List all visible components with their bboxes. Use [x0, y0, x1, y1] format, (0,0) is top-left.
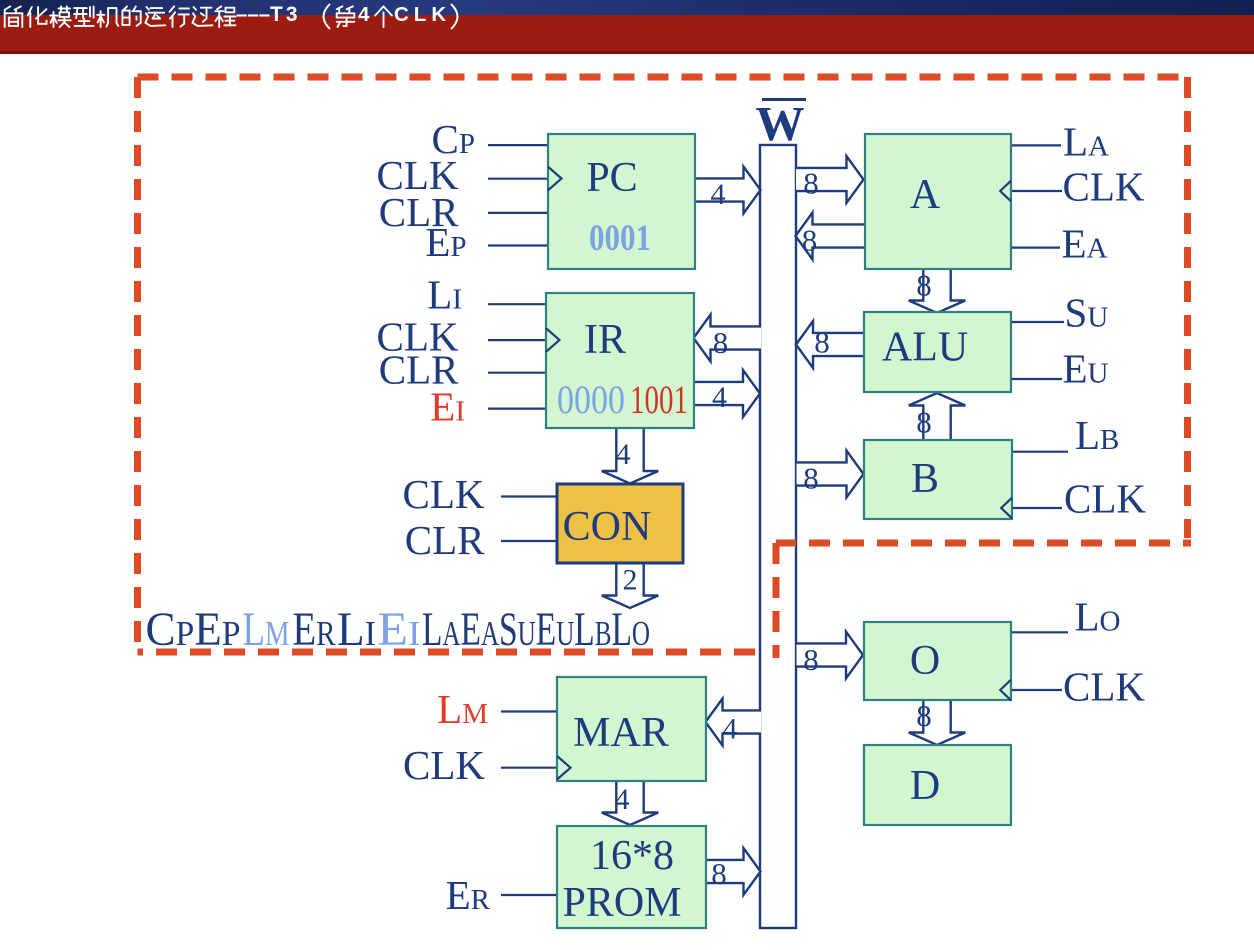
header blue bar: [0, 0, 1254, 15]
svg-text:CPEP: CPEP: [146, 604, 241, 656]
display D: [864, 745, 1011, 825]
bus arrow A to W (8 bits): [796, 213, 866, 260]
svg-text:4: 4: [358, 3, 370, 26]
bus arrow PC to W (4 bits): [695, 167, 761, 214]
control signals CpEpLmErLiEiLaEaSuEuLbLo: [146, 604, 651, 656]
ALU: [864, 312, 1011, 392]
wire A to La: [1011, 144, 1061, 146]
svg-text:LA: LA: [1063, 119, 1109, 165]
svg-text:8: 8: [711, 856, 727, 891]
arrow MAR to PROM (4 bits): [602, 781, 659, 825]
svg-text:PROM: PROM: [562, 880, 681, 926]
svg-text:CLK: CLK: [403, 742, 485, 788]
svg-text:8: 8: [803, 642, 819, 677]
dashed red border: bottom edge: [138, 649, 756, 656]
svg-text:W: W: [756, 96, 805, 151]
wire Er to PROM: [501, 894, 557, 896]
svg-text:8: 8: [802, 223, 818, 258]
svg-text:CON: CON: [563, 504, 652, 550]
svg-text:D: D: [910, 763, 940, 809]
bus arrow W to IR (8 bits): [694, 315, 762, 362]
svg-text:8: 8: [814, 325, 830, 360]
svg-text:4: 4: [712, 381, 727, 414]
bus arrow W to MAR (4 bits): [706, 699, 762, 746]
wire CLK to IR: [488, 339, 546, 341]
svg-text:O: O: [910, 638, 940, 684]
svg-text:8: 8: [803, 461, 819, 496]
bus arrow W to O (8 bits): [797, 632, 864, 679]
clock chevron MAR: [557, 756, 571, 780]
register B: [864, 440, 1012, 519]
dashed red border: step left edge: [773, 543, 780, 658]
svg-text:8: 8: [916, 268, 932, 303]
svg-text:A: A: [910, 172, 941, 218]
svg-text:CLK: CLK: [1063, 164, 1145, 210]
svg-text:MAR: MAR: [573, 710, 669, 756]
svg-text:LM: LM: [243, 604, 290, 656]
svg-text:LI: LI: [427, 272, 462, 318]
wire B to Lb: [1012, 451, 1068, 453]
svg-text:4: 4: [723, 713, 738, 746]
svg-text:EI: EI: [378, 604, 421, 656]
bus arrow W to A (8 bits): [796, 156, 864, 203]
bus W vertical rectangle: [760, 145, 796, 928]
clock chevron PC: [548, 167, 562, 191]
svg-text:ER: ER: [446, 872, 491, 918]
arrow O to D (8 bits): [909, 701, 966, 746]
svg-text:0001: 0001: [589, 218, 651, 259]
bus arrow PROM to W (8 bits): [707, 848, 761, 895]
register O (output): [864, 622, 1011, 700]
svg-text:0000: 0000: [557, 377, 625, 422]
svg-text:LM: LM: [437, 686, 488, 732]
header red bar dark bottom edge: [0, 51, 1254, 54]
clock chevron O: [1000, 680, 1011, 701]
node W label with overline: [762, 98, 806, 101]
title: 简化模型机的运行过程---T3（第4个CLK）: [5, 6, 236, 27]
svg-text:LB: LB: [1075, 412, 1119, 458]
controller CON: [557, 484, 683, 563]
svg-text:8: 8: [916, 405, 932, 440]
dashed red border: step top edge: [776, 540, 1191, 547]
wire CLK to PC: [488, 178, 548, 180]
arrow CON control out (12 bits): [602, 563, 659, 608]
svg-text:4: 4: [711, 178, 726, 211]
wire Cp to PC: [488, 144, 548, 146]
svg-text:CLK: CLK: [394, 3, 451, 26]
svg-text:4: 4: [615, 783, 630, 816]
title fullwidth paren ): [451, 4, 458, 29]
register MAR: [557, 677, 706, 781]
svg-text:T3: T3: [270, 3, 301, 26]
header red bar: [0, 15, 1254, 51]
dashed red border: right edge: [1184, 77, 1191, 538]
svg-text:CLK: CLK: [1064, 476, 1146, 522]
svg-text:CLK: CLK: [403, 471, 485, 517]
bus arrow ALU to W (8 bits): [796, 321, 865, 368]
svg-text:LAEASUEULBLO: LAEASUEULBLO: [422, 604, 650, 656]
dashed red border: top edge: [138, 74, 1191, 81]
bus arrow IR to W (4 bits): [694, 370, 760, 417]
svg-text:IR: IR: [584, 317, 626, 363]
svg-text:8: 8: [713, 325, 729, 360]
arrow B to ALU (8 bits): [909, 393, 966, 440]
svg-text:2: 2: [623, 564, 638, 597]
wire Li to IR: [488, 303, 546, 305]
clock chevron A: [1000, 181, 1011, 202]
clock chevron B: [1001, 498, 1012, 519]
dashed red border: left edge: [134, 77, 141, 652]
svg-text:ER: ER: [293, 604, 336, 656]
clock chevron IR: [546, 328, 560, 352]
wire CLR to IR: [488, 372, 546, 374]
svg-text:EP: EP: [425, 219, 466, 265]
svg-text:CLK: CLK: [1063, 664, 1145, 710]
svg-text:4: 4: [616, 438, 631, 471]
register PC: [548, 134, 695, 269]
wire CLR to PC: [488, 212, 548, 214]
wire A to Ea: [1011, 247, 1060, 249]
wire Ei to IR: [488, 408, 546, 410]
wire CLK to B: [1012, 507, 1062, 509]
wire CLK to O: [1011, 689, 1062, 691]
svg-text:ALU: ALU: [882, 325, 968, 371]
svg-text:–––: –––: [236, 3, 270, 26]
svg-text:LI: LI: [337, 604, 376, 656]
svg-text:PC: PC: [586, 155, 637, 201]
wire ALU to Eu: [1011, 378, 1062, 380]
svg-text:8: 8: [916, 698, 932, 733]
wire O to Lo: [1011, 631, 1068, 633]
wire Lm to MAR: [501, 710, 557, 712]
wire CLK to CON: [501, 495, 557, 497]
svg-text:EU: EU: [1063, 346, 1109, 392]
title fullwidth paren (: [324, 4, 331, 29]
memory 16*8 PROM: [557, 826, 706, 928]
wire CLR to CON: [501, 540, 557, 542]
wire Ep to PC: [488, 244, 548, 246]
arrow IR to CON (4 bits): [602, 429, 659, 484]
register IR: [546, 293, 694, 428]
svg-text:8: 8: [803, 166, 819, 201]
svg-text:EA: EA: [1062, 221, 1108, 267]
svg-text:SU: SU: [1065, 290, 1109, 336]
svg-text:B: B: [911, 456, 939, 502]
svg-text:CLR: CLR: [405, 517, 485, 563]
wire CLK to MAR: [501, 767, 557, 769]
svg-text:EI: EI: [430, 384, 465, 430]
wire ALU to Su: [1011, 321, 1064, 323]
bus arrow W to B (8 bits): [797, 451, 864, 498]
svg-text:1001: 1001: [630, 377, 688, 422]
wire CLK to A: [1011, 190, 1062, 192]
arrow A to ALU (8 bits): [909, 270, 966, 314]
register A (accumulator): [865, 134, 1011, 269]
svg-text:16*8: 16*8: [590, 833, 674, 879]
svg-text:LO: LO: [1075, 594, 1121, 640]
